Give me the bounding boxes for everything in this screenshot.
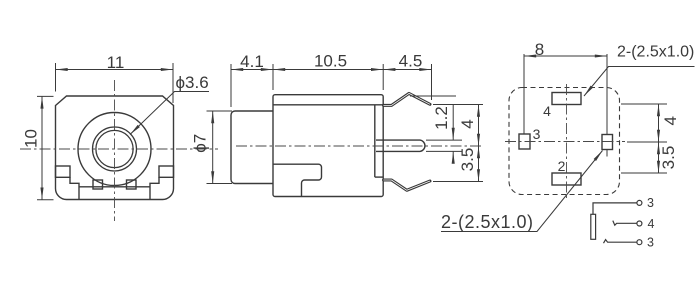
svg-text:3.5: 3.5 — [659, 146, 678, 170]
svg-text:2-(2.5x1.0): 2-(2.5x1.0) — [441, 212, 534, 232]
svg-text:4: 4 — [661, 116, 680, 125]
svg-text:2: 2 — [558, 158, 566, 174]
svg-text:4.1: 4.1 — [240, 52, 264, 71]
svg-text:3: 3 — [647, 236, 654, 250]
svg-text:10.5: 10.5 — [314, 52, 347, 71]
svg-text:3: 3 — [533, 126, 541, 142]
svg-text:3: 3 — [647, 196, 654, 210]
svg-text:3.5: 3.5 — [458, 148, 477, 172]
svg-text:10: 10 — [22, 129, 41, 148]
svg-text:1.2: 1.2 — [432, 106, 451, 130]
svg-text:4.5: 4.5 — [399, 52, 423, 71]
svg-text:11: 11 — [107, 53, 125, 72]
svg-text:2-(2.5x1.0): 2-(2.5x1.0) — [617, 44, 694, 61]
svg-text:8: 8 — [535, 40, 544, 59]
svg-text:ϕ3.6: ϕ3.6 — [176, 73, 209, 92]
svg-text:4: 4 — [543, 103, 551, 119]
svg-text:4: 4 — [648, 217, 655, 231]
svg-text:4: 4 — [458, 119, 477, 128]
svg-text:ϕ7: ϕ7 — [190, 134, 209, 153]
